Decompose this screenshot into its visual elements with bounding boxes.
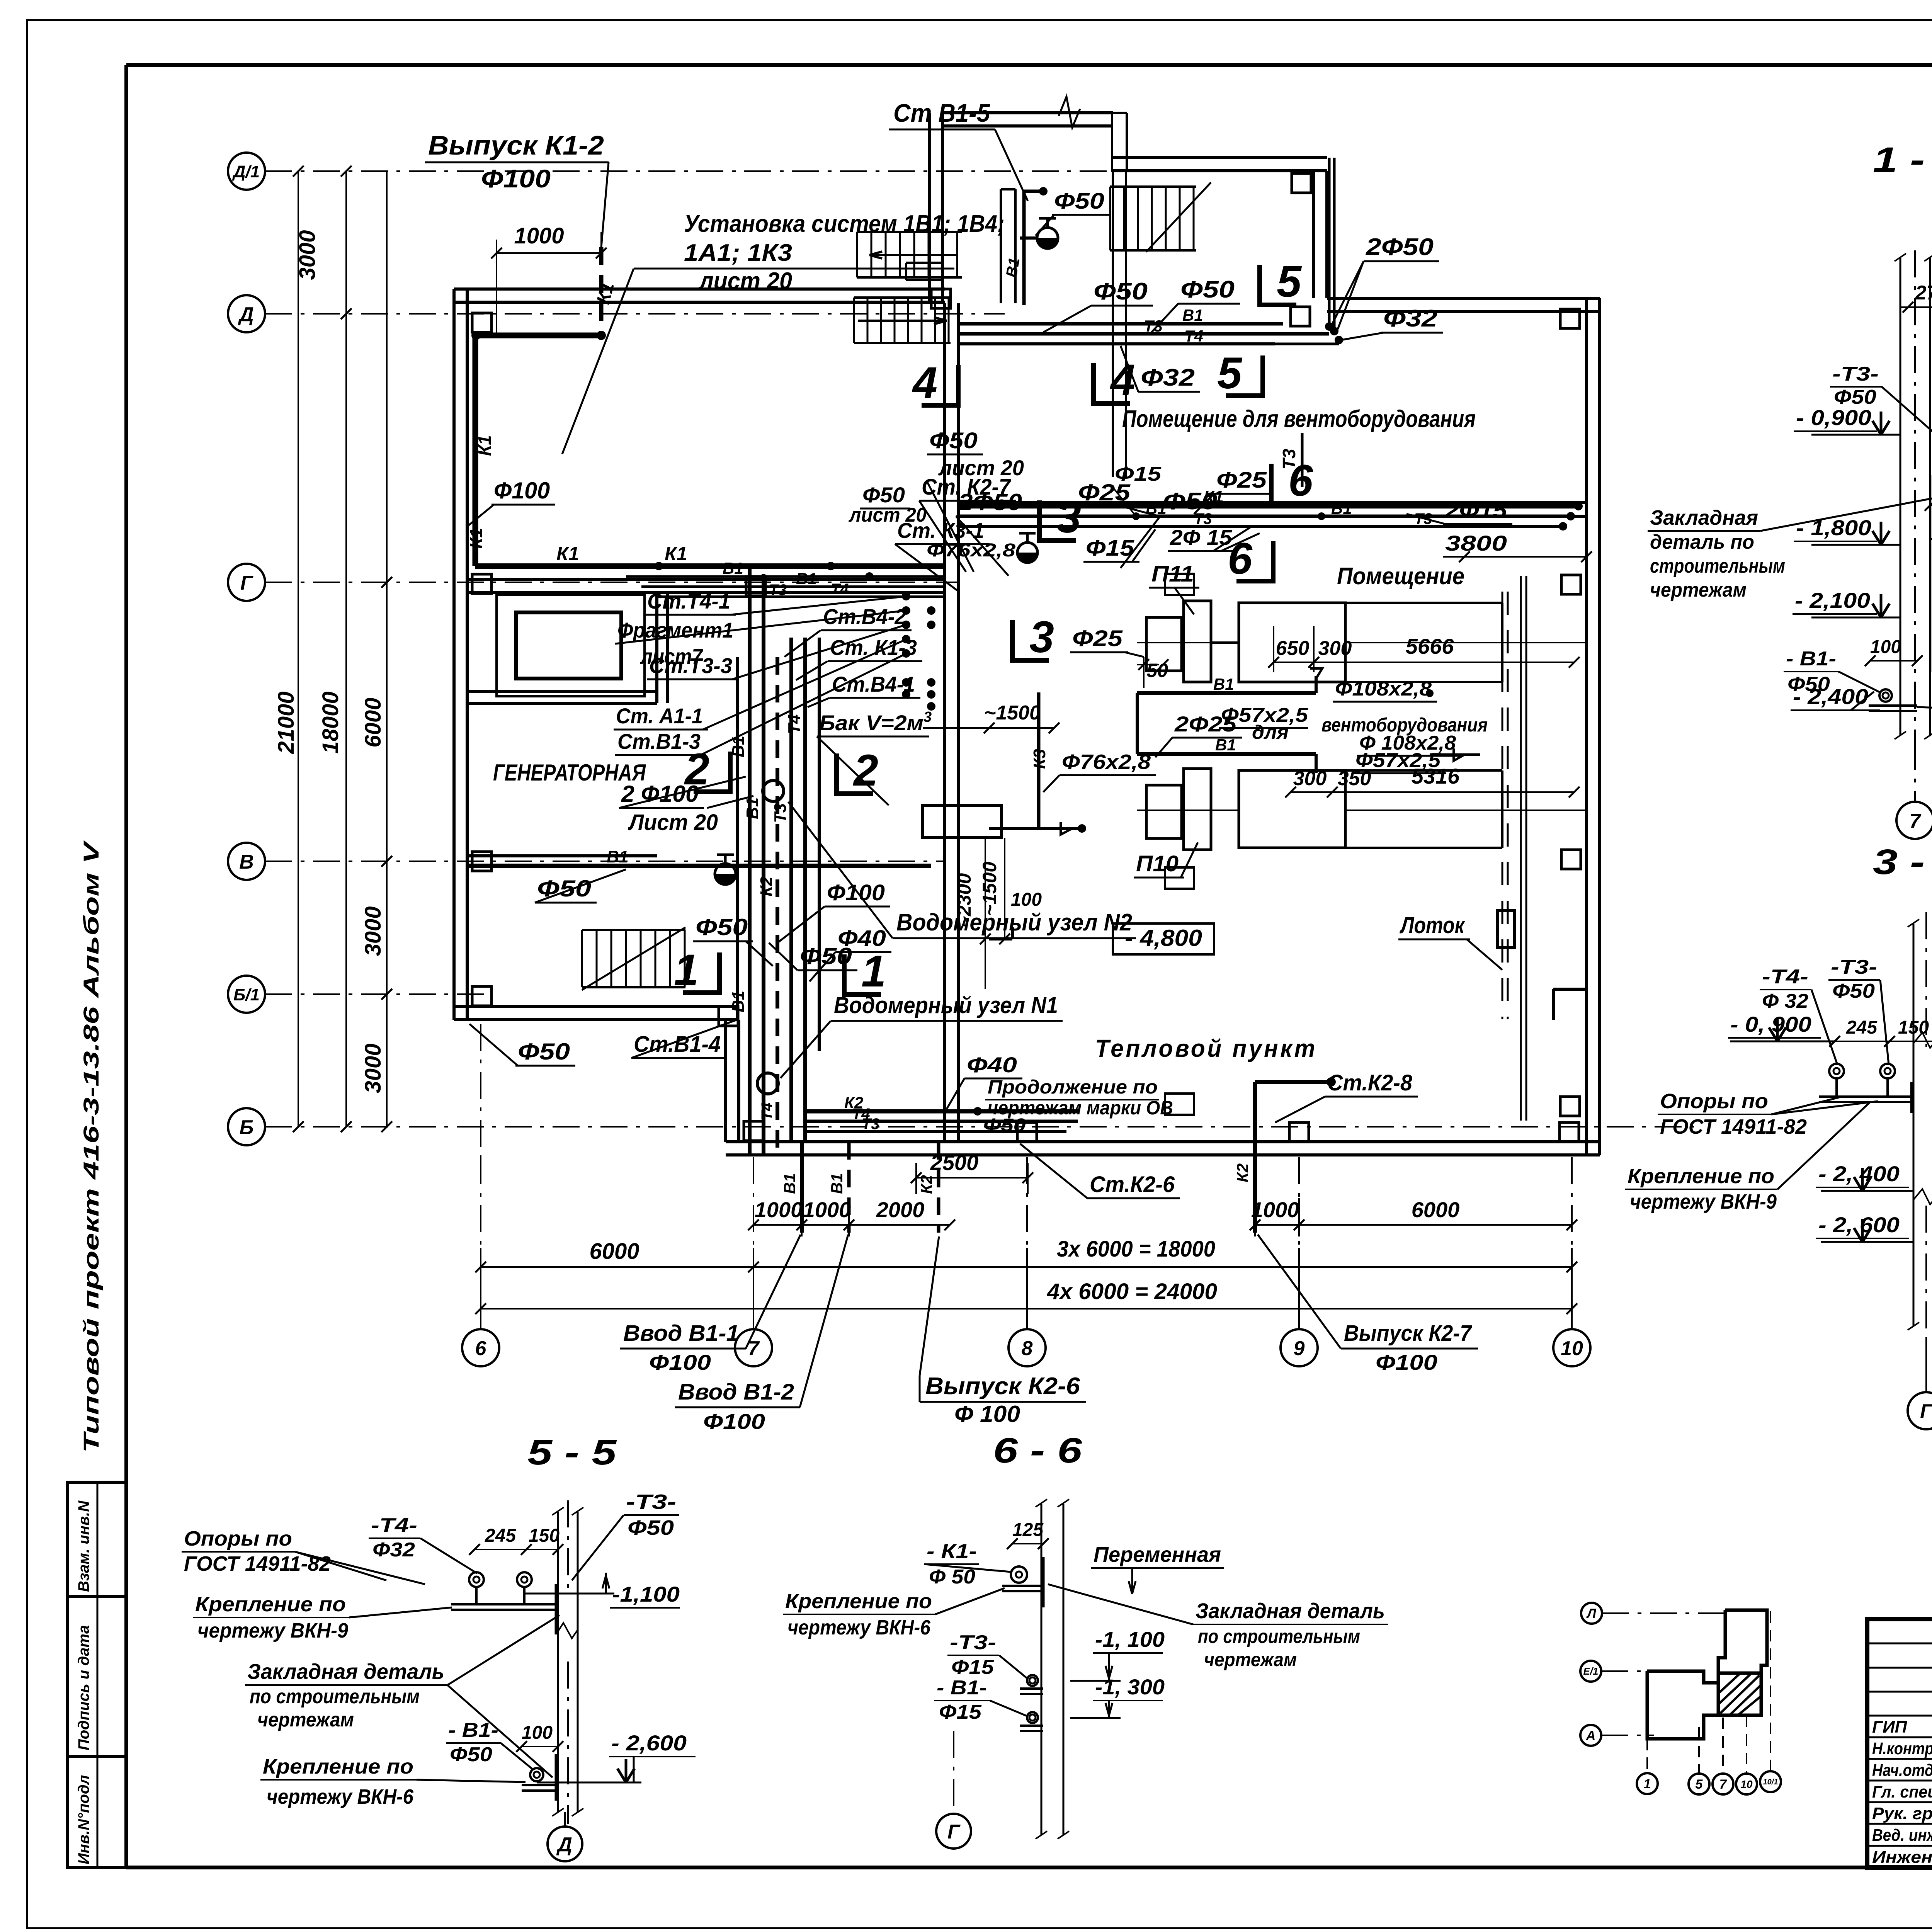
svg-text:Крепление по: Крепление по: [263, 1755, 413, 1778]
drawing frame: [126, 63, 1932, 67]
svg-text:В1: В1: [723, 559, 743, 577]
svg-text:Помещение: Помещение: [1337, 563, 1464, 590]
svg-text:Ст.К2-8: Ст.К2-8: [1327, 1070, 1413, 1095]
svg-text:Выпуск К2-6: Выпуск К2-6: [925, 1373, 1080, 1400]
key plan building: [1725, 1610, 1767, 1673]
section marks 3: [1037, 500, 1042, 543]
lotok tray dashed: [1502, 592, 1503, 1019]
svg-text:В1: В1: [729, 991, 748, 1012]
svg-text:В1: В1: [796, 570, 817, 588]
svg-text:-Т4-: -Т4-: [1762, 966, 1808, 988]
svg-text:Т4: Т4: [785, 714, 804, 734]
svg-text:Ф50: Ф50: [1180, 276, 1235, 303]
svg-text:10/1: 10/1: [1763, 1778, 1778, 1786]
svg-text:3000: 3000: [361, 1043, 386, 1093]
svg-text:1 - 1: 1 - 1: [1873, 140, 1932, 180]
svg-text:Н.контр.: Н.контр.: [1872, 1739, 1932, 1758]
exterior stub top-left of bay: [906, 279, 944, 281]
3-3 supports T4 T3 left: [1829, 1064, 1844, 1078]
stair: lower left: [582, 929, 685, 931]
svg-text:Ф76х2,8: Ф76х2,8: [927, 540, 1015, 561]
svg-text:лист 20: лист 20: [938, 456, 1024, 480]
key plan axis circles: [1581, 1603, 1602, 1624]
svg-text:3800: 3800: [1445, 531, 1507, 555]
svg-text:В1: В1: [828, 1173, 846, 1194]
svg-text:2000: 2000: [876, 1197, 925, 1222]
svg-text:5666: 5666: [1406, 634, 1454, 658]
svg-text:Ф76х2,8: Ф76х2,8: [1062, 750, 1151, 774]
5-5 clamp V1: [530, 1768, 543, 1781]
svg-text:Ф25: Ф25: [1216, 468, 1267, 493]
svg-text:Ст. А1-1: Ст. А1-1: [616, 704, 703, 728]
svg-text:- 2,100: - 2,100: [1795, 588, 1870, 612]
svg-text:по строительным: по строительным: [1198, 1626, 1360, 1647]
svg-text:Инв.N°подл: Инв.N°подл: [75, 1775, 92, 1864]
6-6 small clamps T3 V1: [1027, 1675, 1038, 1686]
svg-text:К1: К1: [466, 528, 486, 549]
svg-text:18000: 18000: [318, 691, 343, 753]
svg-text:Лоток: Лоток: [1400, 912, 1465, 938]
stair: exterior entrance top-left upper run: [857, 231, 962, 233]
1-1 axis 7: [1914, 743, 1916, 801]
bay riser V1: [1022, 191, 1026, 305]
svg-text:В1: В1: [1213, 675, 1234, 693]
horizontal axis lines: [265, 170, 1182, 172]
shaft riser pipes vertical: [748, 568, 752, 1155]
svg-text:1000: 1000: [514, 223, 564, 248]
section marks 4 5 6: [956, 365, 961, 408]
svg-text:Ф15: Ф15: [939, 1701, 982, 1723]
svg-text:Помещение для вентоборудован: Помещение для вентоборудования: [1122, 406, 1476, 432]
svg-text:чертежу ВКН-9: чертежу ВКН-9: [197, 1619, 348, 1642]
svg-text:Ф100: Ф100: [494, 478, 550, 503]
wall: top east part: [1327, 297, 1600, 300]
svg-text:Ст.В4-2: Ст.В4-2: [823, 604, 906, 629]
svg-text:7: 7: [1910, 810, 1922, 832]
svg-text:6 - 6: 6 - 6: [993, 1431, 1082, 1470]
svg-text:5 - 5: 5 - 5: [527, 1433, 617, 1472]
1-1 clamp V1 f50: [1879, 689, 1892, 702]
pipe to tank with valve f76: [989, 937, 1012, 940]
pipe bundle G wall: [626, 575, 945, 578]
svg-text:275: 275: [1915, 282, 1932, 304]
svg-text:3х 6000 = 18000: 3х 6000 = 18000: [1057, 1236, 1215, 1262]
svg-text:1А1; 1К3: 1А1; 1К3: [684, 240, 792, 266]
svg-text:- 0,900: - 0,900: [1796, 405, 1871, 430]
svg-text:5: 5: [1277, 257, 1302, 306]
svg-text:чертежам: чертежам: [1204, 1649, 1297, 1670]
svg-text:Ф32: Ф32: [1383, 305, 1437, 332]
svg-text:Т3: Т3: [771, 803, 790, 823]
svg-text:Ф40: Ф40: [967, 1053, 1017, 1077]
svg-text:чертежу ВКН-6: чертежу ВКН-6: [787, 1616, 931, 1639]
svg-text:К1: К1: [665, 543, 687, 565]
svg-text:Е/1: Е/1: [1583, 1665, 1598, 1677]
svg-text:-Т3-: -Т3-: [1831, 956, 1877, 978]
svg-text:К2: К2: [1233, 1163, 1252, 1182]
svg-text:4: 4: [912, 358, 937, 408]
section marks 1: [717, 952, 722, 995]
svg-text:- 0, 900: - 0, 900: [1730, 1012, 1811, 1036]
svg-text:4: 4: [1110, 355, 1135, 405]
svg-text:300: 300: [1293, 767, 1327, 790]
svg-text:300: 300: [1318, 637, 1352, 660]
svg-text:для: для: [1252, 721, 1289, 743]
svg-text:Водомерный узел N2: Водомерный узел N2: [896, 909, 1132, 936]
svg-text:Рук. гр.: Рук. гр.: [1872, 1804, 1932, 1823]
svg-text:Т4: Т4: [759, 1102, 776, 1121]
svg-text:100: 100: [1870, 637, 1901, 657]
svg-text:100: 100: [522, 1723, 553, 1743]
svg-text:Ф50: Ф50: [450, 1743, 492, 1766]
svg-text:150: 150: [1898, 1017, 1929, 1038]
svg-text:Фрагмент1: Фрагмент1: [617, 618, 733, 642]
interior wall G axis: [468, 578, 945, 581]
svg-text:Крепление по: Крепление по: [195, 1593, 346, 1616]
equipment P10: [1146, 785, 1182, 838]
svg-text:- 2, 400: - 2, 400: [1818, 1162, 1900, 1186]
svg-text:чертежам: чертежам: [1650, 579, 1747, 601]
svg-text:Г: Г: [240, 572, 253, 594]
svg-text:Д: Д: [238, 303, 254, 326]
svg-text:Ф15: Ф15: [951, 1656, 994, 1679]
wall: chimney: [1111, 113, 1113, 172]
tank Bak: [923, 805, 1002, 838]
key plan lower block: [1647, 1671, 1718, 1683]
fragment box: [497, 595, 645, 696]
left stamp boxes: [68, 1482, 126, 1867]
svg-text:Взам. инв.N: Взам. инв.N: [75, 1500, 92, 1592]
svg-text:- К1-: - К1-: [927, 1540, 977, 1563]
svg-text:Ф15: Ф15: [1115, 463, 1162, 485]
pipe K1 along G wall: [475, 563, 945, 569]
wall: bay1 top: [943, 111, 1113, 114]
bottom dimension chains: [480, 1248, 481, 1321]
svg-text:6: 6: [475, 1337, 487, 1360]
bottom pipe bundle along B wall: [804, 1109, 1078, 1114]
svg-text:- 1,800: - 1,800: [1796, 515, 1871, 540]
svg-text:8: 8: [1022, 1337, 1033, 1360]
svg-text:К1: К1: [474, 435, 495, 456]
svg-text:-1, 100: -1, 100: [1095, 1627, 1165, 1651]
svg-text:К1: К1: [556, 543, 579, 565]
svg-text:100: 100: [1011, 889, 1042, 910]
svg-text:Ф 100: Ф 100: [954, 1401, 1020, 1427]
pipe K1 issue dashed: [599, 247, 604, 335]
svg-text:Ф100: Ф100: [481, 164, 551, 193]
wall: bay2 top: [1112, 156, 1327, 159]
svg-text:Г: Г: [1920, 1400, 1932, 1423]
2f50 riser pair top right: [1328, 158, 1331, 327]
svg-text:Крепление по: Крепление по: [1628, 1165, 1774, 1188]
svg-text:3: 3: [1056, 493, 1081, 542]
svg-text:-1,100: -1,100: [612, 1582, 680, 1606]
svg-text:-Т3-: -Т3-: [1832, 363, 1879, 385]
section 5-5 wall: [557, 1512, 559, 1812]
svg-text:-Т3-: -Т3-: [950, 1631, 996, 1654]
svg-text:Установка систем 1В1; 1В4;: Установка систем 1В1; 1В4;: [684, 211, 1005, 237]
pipes V1 at equipment: [1137, 691, 1316, 695]
svg-text:150: 150: [529, 1526, 560, 1546]
svg-text:Ф32: Ф32: [1141, 364, 1195, 391]
svg-text:Г: Г: [947, 1821, 961, 1843]
svg-text:6000: 6000: [1412, 1197, 1460, 1222]
svg-text:Инжен.: Инжен.: [1872, 1848, 1932, 1867]
svg-text:2 Ф100: 2 Ф100: [621, 781, 699, 807]
svg-text:Ф50: Ф50: [862, 483, 905, 507]
svg-text:Ф50: Ф50: [1787, 673, 1830, 696]
valve in bay: [1037, 238, 1058, 248]
equipment P11: [1146, 617, 1182, 671]
svg-text:5: 5: [1696, 1777, 1703, 1792]
equipment dim lines: [1143, 657, 1145, 688]
interior wall V axis: [468, 854, 657, 857]
1-1 level marks: [1811, 434, 1900, 436]
top dim 1000: [496, 240, 497, 336]
wall: lower west wing: [724, 1020, 727, 1142]
svg-text:2Ф50: 2Ф50: [958, 489, 1022, 515]
svg-text:Ф57х2,5: Ф57х2,5: [1355, 749, 1441, 772]
svg-text:П11: П11: [1151, 561, 1194, 587]
svg-text:Тепловой пункт: Тепловой пункт: [1095, 1034, 1317, 1062]
svg-text:В1: В1: [1331, 499, 1352, 517]
column blocks: [472, 313, 492, 332]
svg-text:чертежам: чертежам: [257, 1709, 354, 1731]
svg-text:Нач.отд.: Нач.отд.: [1872, 1761, 1932, 1780]
svg-text:1: 1: [674, 946, 699, 995]
water meter node 2: [763, 781, 784, 801]
svg-text:6000: 6000: [361, 697, 386, 747]
svg-text:Ф15: Ф15: [1086, 536, 1134, 561]
svg-text:лист 20: лист 20: [698, 268, 792, 294]
key plan hatched square: [1718, 1673, 1761, 1715]
svg-text:- В1-: - В1-: [937, 1677, 987, 1699]
6-6 clamp K1: [1011, 1566, 1027, 1583]
svg-text:Т3: Т3: [769, 582, 787, 599]
svg-text:Опоры по: Опоры по: [1660, 1090, 1768, 1113]
svg-text:Вед. инж: Вед. инж: [1872, 1826, 1932, 1845]
wall: stairwell partition: [1000, 189, 1002, 303]
tank dims: [985, 838, 986, 989]
1-1 embed plate: [1932, 475, 1932, 672]
svg-text:Лист 20: Лист 20: [628, 810, 718, 835]
svg-text:5: 5: [1217, 349, 1243, 398]
svg-text:Д/1: Д/1: [232, 162, 260, 181]
svg-text:-Т3-: -Т3-: [626, 1490, 676, 1514]
svg-text:Ф100: Ф100: [827, 880, 885, 905]
svg-text:3000: 3000: [361, 906, 386, 956]
svg-text:Водомерный узел N1: Водомерный узел N1: [834, 992, 1058, 1018]
svg-text:Ф50: Ф50: [1054, 189, 1104, 214]
svg-text:ГИП: ГИП: [1872, 1718, 1908, 1736]
svg-text:Ст.Т4-1: Ст.Т4-1: [647, 589, 730, 613]
pipe K1 vertical left wall: [473, 335, 478, 566]
title block: [1867, 1619, 1932, 1867]
svg-text:2Ф50: 2Ф50: [1366, 234, 1434, 260]
svg-text:1000: 1000: [803, 1197, 851, 1222]
svg-text:Ф50: Ф50: [929, 428, 978, 453]
3-3 axis G: [1925, 1338, 1927, 1391]
svg-text:245: 245: [1846, 1017, 1878, 1038]
svg-text:В: В: [239, 851, 254, 873]
svg-text:Ф50: Ф50: [1163, 488, 1217, 515]
5-5 supports T4 T3: [469, 1572, 484, 1587]
-4,800 box: [1113, 923, 1214, 954]
svg-text:Бак V=2м: Бак V=2м: [819, 711, 923, 735]
svg-text:деталь по: деталь по: [1650, 531, 1754, 553]
svg-text:чертежу ВКН-6: чертежу ВКН-6: [267, 1785, 414, 1808]
riser shaft wall: [943, 303, 946, 1142]
svg-text:Ф50: Ф50: [1832, 980, 1875, 1002]
svg-text:~1500: ~1500: [984, 702, 1041, 724]
svg-text:- 4,800: - 4,800: [1125, 925, 1202, 951]
pipe V1 on V axis wall: [468, 864, 931, 868]
svg-text:Закладная: Закладная: [1650, 506, 1758, 529]
svg-text:Ст. К1-3: Ст. К1-3: [830, 635, 917, 660]
pipe K3 vertical: [1037, 692, 1041, 828]
svg-text:3 - 3: 3 - 3: [1873, 842, 1932, 882]
svg-text:Т3: Т3: [862, 1116, 880, 1133]
wall: B/1 axis: [454, 1005, 739, 1008]
svg-text:10: 10: [1740, 1778, 1753, 1790]
wall: west: [452, 289, 456, 1020]
section 6-6 wall: [1041, 1504, 1043, 1835]
svg-text:Гл. спец: Гл. спец: [1872, 1782, 1932, 1801]
svg-text:Б: Б: [240, 1116, 254, 1139]
top pipe bundle vent room: [958, 322, 1283, 326]
svg-text:3: 3: [923, 709, 932, 725]
svg-text:- 2,600: - 2,600: [611, 1731, 687, 1755]
3-3 break mid: [1913, 1032, 1932, 1048]
svg-text:А: А: [1586, 1728, 1596, 1743]
svg-text:3: 3: [1029, 612, 1054, 662]
5-5 level marks: [526, 1593, 614, 1595]
svg-text:Ст В1-5: Ст В1-5: [893, 99, 990, 127]
svg-text:Ст.В4-1: Ст.В4-1: [832, 672, 915, 696]
fragment room walls: [468, 690, 657, 693]
svg-text:Продолжение по: Продолжение по: [988, 1076, 1158, 1098]
vent room west partition: [1112, 172, 1114, 477]
svg-text:1000: 1000: [1251, 1197, 1299, 1222]
svg-text:чертежу ВКН-9: чертежу ВКН-9: [1630, 1190, 1777, 1213]
water meter node 1: [757, 1073, 778, 1094]
valve near 2f25: [1017, 553, 1037, 563]
inner shaft lines right: [1520, 576, 1522, 1121]
svg-text:7: 7: [1719, 1777, 1728, 1792]
svg-text:Выпуск К1-2: Выпуск К1-2: [428, 130, 604, 160]
section 3-3 wall: [1913, 924, 1915, 1326]
svg-text:Л: Л: [1586, 1606, 1596, 1621]
small blocks under equipment: [1165, 574, 1194, 595]
left dimension lines: [298, 171, 299, 1127]
svg-text:Ст.К2-6: Ст.К2-6: [1090, 1172, 1175, 1197]
svg-text:-1, 300: -1, 300: [1095, 1675, 1165, 1699]
svg-text:Выпуск К2-7: Выпуск К2-7: [1344, 1321, 1473, 1346]
svg-text:Ф50: Ф50: [628, 1516, 674, 1539]
svg-text:- В1-: - В1-: [448, 1719, 498, 1742]
svg-text:10: 10: [1561, 1337, 1583, 1360]
svg-text:В1: В1: [607, 847, 628, 866]
svg-text:245: 245: [485, 1526, 516, 1546]
svg-text:Типовой проект 416-3-13.86: Типовой проект 416-3-13.86 Альбом V: [79, 840, 103, 1453]
svg-text:6: 6: [1228, 534, 1253, 583]
5-5 dims: [474, 1549, 558, 1550]
svg-text:- 2, 600: - 2, 600: [1818, 1213, 1900, 1237]
svg-text:Закладная деталь: Закладная деталь: [1196, 1599, 1385, 1623]
svg-text:Ввод В1-2: Ввод В1-2: [678, 1379, 794, 1405]
wall: bay1 west: [928, 113, 931, 303]
pipe K2 st.K2-8: [1253, 1082, 1257, 1233]
svg-text:Ф25: Ф25: [1072, 626, 1123, 651]
riser dots cluster: [902, 592, 910, 600]
svg-text:2Ф15: 2Ф15: [1445, 498, 1507, 522]
svg-text:Ф100: Ф100: [649, 1350, 711, 1374]
wall: top D axis: [454, 287, 945, 291]
svg-text:Закладная деталь: Закладная деталь: [247, 1659, 444, 1684]
svg-text:Ф50: Ф50: [696, 914, 748, 940]
svg-text:6000: 6000: [589, 1239, 639, 1264]
svg-text:Ф50: Ф50: [983, 1115, 1026, 1136]
svg-text:Т3: Т3: [1144, 317, 1163, 335]
svg-text:Д: Д: [556, 1833, 572, 1856]
svg-text:Ф50: Ф50: [537, 876, 591, 901]
3-3 level marks: [1730, 1041, 1835, 1043]
svg-text:В1: В1: [1182, 306, 1203, 324]
svg-text:К2: К2: [757, 876, 776, 896]
svg-text:Ф 32: Ф 32: [1762, 990, 1808, 1012]
svg-text:Т4: Т4: [1184, 327, 1203, 345]
svg-text:21000: 21000: [274, 691, 299, 754]
stair: bay1: [1110, 185, 1196, 188]
6-6 axis G: [953, 1731, 954, 1812]
svg-text:по строительным: по строительным: [250, 1685, 420, 1708]
svg-text:Ф108х2,8: Ф108х2,8: [1335, 678, 1432, 700]
svg-text:Ст.Т3-3: Ст.Т3-3: [649, 653, 732, 678]
vertical axis lines bottom: [480, 1157, 481, 1329]
mid pipe bundle K1/V1/T3: [958, 504, 1578, 509]
svg-text:Ф100: Ф100: [1376, 1350, 1437, 1374]
svg-text:- В1-: - В1-: [1786, 648, 1836, 670]
svg-text:4х 6000 = 24000: 4х 6000 = 24000: [1047, 1279, 1217, 1304]
svg-text:Переменная: Переменная: [1094, 1542, 1221, 1566]
svg-text:Ф50: Ф50: [1094, 278, 1148, 305]
svg-text:Подпись и дата: Подпись и дата: [75, 1625, 92, 1750]
section 1-1 wall: [1900, 258, 1901, 735]
svg-text:2: 2: [853, 746, 878, 795]
svg-text:Ф100: Ф100: [703, 1409, 765, 1434]
wall: bay2 east: [1312, 171, 1315, 298]
svg-text:Ф50: Ф50: [1834, 386, 1876, 408]
svg-text:строительным: строительным: [1650, 555, 1785, 577]
svg-text:В1: В1: [743, 798, 762, 819]
pipe K1 entry: [475, 333, 601, 338]
svg-text:К3: К3: [1030, 749, 1049, 769]
stair: exterior entrance top-left lower run: [854, 296, 951, 299]
svg-text:Ввод В1-1: Ввод В1-1: [623, 1321, 739, 1346]
svg-text:лист 20: лист 20: [848, 504, 927, 526]
svg-text:П10: П10: [1136, 851, 1179, 876]
wall: east: [1585, 298, 1588, 1155]
svg-text:1000: 1000: [755, 1197, 803, 1222]
svg-text:Б/1: Б/1: [233, 985, 260, 1004]
pipe drops below building: [800, 1142, 804, 1233]
svg-text:Т4: Т4: [831, 581, 849, 598]
svg-text:Ф50: Ф50: [518, 1039, 570, 1065]
svg-text:3000: 3000: [295, 230, 320, 280]
svg-text:1: 1: [1644, 1777, 1651, 1791]
svg-text:Ф 50: Ф 50: [929, 1566, 975, 1588]
right shaft bottom pipe jog: [1553, 988, 1587, 991]
